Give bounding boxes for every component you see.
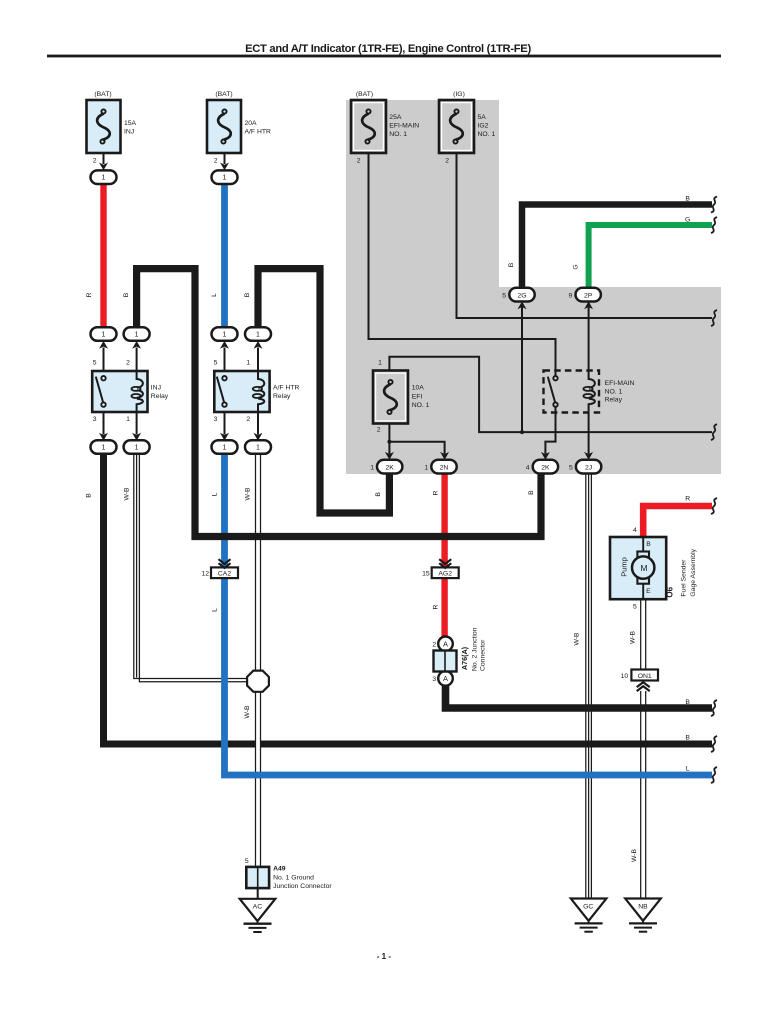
svg-text:1: 1 xyxy=(378,359,382,366)
svg-text:(BAT): (BAT) xyxy=(215,91,232,98)
svg-text:3: 3 xyxy=(432,676,436,683)
svg-text:1: 1 xyxy=(246,360,250,367)
svg-text:5: 5 xyxy=(245,858,249,865)
svg-text:NO. 1: NO. 1 xyxy=(605,388,623,395)
svg-text:AG2: AG2 xyxy=(438,570,452,577)
svg-text:5: 5 xyxy=(633,603,637,610)
svg-text:15A: 15A xyxy=(124,120,137,127)
svg-text:B: B xyxy=(685,734,690,741)
svg-text:INJ: INJ xyxy=(124,128,134,135)
svg-text:EFI: EFI xyxy=(412,393,423,400)
svg-text:2: 2 xyxy=(214,157,218,164)
svg-text:L: L xyxy=(686,765,690,772)
svg-text:2: 2 xyxy=(246,416,250,423)
svg-text:5A: 5A xyxy=(478,114,487,121)
svg-text:Fuel Sender: Fuel Sender xyxy=(681,559,688,597)
svg-text:NO. 1: NO. 1 xyxy=(478,131,496,138)
svg-text:- 1 -: - 1 - xyxy=(377,952,392,961)
svg-text:B: B xyxy=(528,490,535,495)
svg-text:2N: 2N xyxy=(440,464,449,471)
svg-text:L: L xyxy=(212,492,219,496)
svg-text:AC: AC xyxy=(253,903,263,910)
svg-text:W-B: W-B xyxy=(631,848,638,862)
svg-text:G: G xyxy=(685,217,690,224)
svg-text:12: 12 xyxy=(201,570,209,577)
svg-text:3: 3 xyxy=(93,416,97,423)
svg-text:2P: 2P xyxy=(584,292,593,299)
svg-text:1: 1 xyxy=(370,464,374,471)
svg-text:W-B: W-B xyxy=(245,487,252,501)
svg-text:O6: O6 xyxy=(666,586,675,597)
svg-text:W-B: W-B xyxy=(574,632,581,646)
svg-text:1: 1 xyxy=(126,416,130,423)
svg-text:B: B xyxy=(123,292,130,297)
svg-text:3: 3 xyxy=(214,416,218,423)
svg-text:B: B xyxy=(646,541,651,548)
svg-text:R: R xyxy=(685,495,690,502)
svg-text:L: L xyxy=(212,608,219,612)
svg-text:B: B xyxy=(508,262,515,267)
svg-text:2: 2 xyxy=(445,157,449,164)
svg-text:R: R xyxy=(432,490,439,495)
svg-text:Relay: Relay xyxy=(151,393,169,400)
svg-text:CA2: CA2 xyxy=(218,570,231,577)
svg-text:2: 2 xyxy=(432,641,436,648)
svg-text:(IG): (IG) xyxy=(453,91,465,98)
svg-text:10: 10 xyxy=(621,673,629,680)
svg-text:IG2: IG2 xyxy=(478,122,489,129)
svg-text:Pump: Pump xyxy=(620,557,629,577)
svg-text:No. 1 Ground: No. 1 Ground xyxy=(273,875,314,882)
svg-text:A/F HTR: A/F HTR xyxy=(273,384,300,391)
svg-text:ON1: ON1 xyxy=(638,673,652,680)
svg-text:2K: 2K xyxy=(386,464,395,471)
svg-text:2: 2 xyxy=(93,157,97,164)
svg-text:B: B xyxy=(685,699,690,706)
svg-text:1: 1 xyxy=(424,464,428,471)
svg-text:15: 15 xyxy=(422,570,430,577)
svg-text:B: B xyxy=(85,493,92,498)
svg-text:4: 4 xyxy=(633,527,637,534)
svg-text:Connector: Connector xyxy=(480,639,487,671)
svg-text:A: A xyxy=(443,639,448,648)
svg-text:(BAT): (BAT) xyxy=(356,91,373,98)
svg-text:NO. 1: NO. 1 xyxy=(389,131,407,138)
svg-text:M: M xyxy=(640,563,647,573)
svg-text:2J: 2J xyxy=(585,464,592,471)
svg-text:5: 5 xyxy=(93,360,97,367)
svg-text:No. 2 Junction: No. 2 Junction xyxy=(471,627,478,671)
svg-text:GC: GC xyxy=(583,903,593,910)
svg-text:G: G xyxy=(573,264,580,269)
svg-text:EFI-MAIN: EFI-MAIN xyxy=(389,122,419,129)
svg-text:R: R xyxy=(86,292,93,297)
svg-text:2: 2 xyxy=(357,157,361,164)
svg-text:(BAT): (BAT) xyxy=(94,91,111,98)
svg-text:W-B: W-B xyxy=(629,630,636,644)
svg-text:E: E xyxy=(646,588,651,595)
svg-text:A49: A49 xyxy=(273,866,286,873)
svg-text:A: A xyxy=(443,674,448,683)
svg-text:25A: 25A xyxy=(389,114,402,121)
svg-text:2: 2 xyxy=(377,427,381,434)
svg-text:B: B xyxy=(244,292,251,297)
svg-text:NB: NB xyxy=(638,903,648,910)
svg-text:2: 2 xyxy=(126,360,130,367)
svg-text:9: 9 xyxy=(569,292,573,299)
svg-text:20A: 20A xyxy=(245,120,258,127)
svg-text:ECT and A/T Indicator (1TR-FE): ECT and A/T Indicator (1TR-FE), Engine C… xyxy=(245,43,531,55)
svg-text:EFI-MAIN: EFI-MAIN xyxy=(605,380,635,387)
svg-text:B: B xyxy=(375,492,382,497)
svg-text:W-B: W-B xyxy=(244,705,251,719)
svg-text:10A: 10A xyxy=(412,385,425,392)
svg-text:R: R xyxy=(432,604,439,609)
svg-text:NO. 1: NO. 1 xyxy=(412,402,430,409)
svg-text:2G: 2G xyxy=(517,292,526,299)
svg-text:A76(A): A76(A) xyxy=(460,646,469,670)
svg-text:A/F HTR: A/F HTR xyxy=(245,128,272,135)
svg-text:5: 5 xyxy=(569,464,573,471)
svg-text:4: 4 xyxy=(526,464,530,471)
svg-text:5: 5 xyxy=(502,292,506,299)
svg-text:INJ: INJ xyxy=(151,384,161,391)
svg-text:Junction Connector: Junction Connector xyxy=(273,883,332,890)
svg-text:W-B: W-B xyxy=(124,487,131,501)
svg-text:2K: 2K xyxy=(541,464,550,471)
svg-text:B: B xyxy=(685,196,690,203)
svg-text:5: 5 xyxy=(214,360,218,367)
svg-text:Relay: Relay xyxy=(605,397,623,404)
svg-text:Relay: Relay xyxy=(273,393,291,400)
svg-text:Gage Assembly: Gage Assembly xyxy=(690,548,697,596)
svg-text:L: L xyxy=(211,293,218,297)
